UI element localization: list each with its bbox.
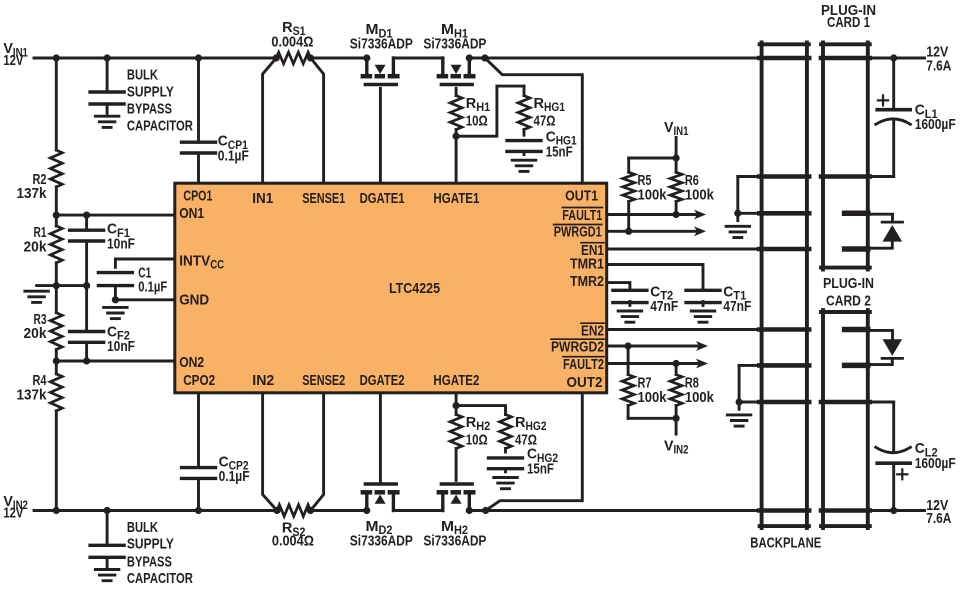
- pin label OUT2: [567, 374, 603, 391]
- svg-text:15nF: 15nF: [546, 143, 573, 160]
- label 12V 7.6A card2: [926, 497, 951, 527]
- svg-text:BYPASS: BYPASS: [127, 100, 172, 117]
- capacitor CHG2 15nF: [489, 446, 559, 478]
- svg-text:EN2: EN2: [581, 322, 604, 339]
- svg-text:CC: CC: [210, 260, 224, 272]
- ground below bulk capacitor 1: [95, 116, 119, 127]
- node junction dot OUT1 tap: [481, 54, 488, 61]
- op-amp U1 — LTC4225 hot swap controller IC body: [175, 183, 607, 393]
- node junction dot MD2 drain: [363, 507, 370, 514]
- node junction dot MD1 drain: [363, 54, 370, 61]
- svg-text:0.1µF: 0.1µF: [219, 468, 250, 485]
- svg-text:HGATE2: HGATE2: [433, 372, 479, 389]
- node junction dot MH1 source: [466, 54, 473, 61]
- wire 12V power pin crossing card 1: [821, 56, 870, 61]
- arrow FAULT2 off-page: [696, 359, 708, 369]
- ground below CHG1: [512, 152, 536, 172]
- label PLUG-IN CARD 1: [821, 2, 876, 31]
- pin label DGATE1: [360, 190, 405, 207]
- ground below bulk capacitor 2: [95, 570, 119, 581]
- svg-text:V: V: [664, 119, 674, 136]
- svg-text:Si7336ADP: Si7336ADP: [423, 533, 486, 550]
- node junction dot RS1 right: [307, 54, 314, 61]
- svg-text:CAPACITOR: CAPACITOR: [127, 570, 193, 587]
- wire 12V rail to CL1 and load: [868, 57, 925, 60]
- svg-text:CARD 1: CARD 1: [827, 14, 870, 31]
- svg-text:R: R: [534, 95, 545, 112]
- node junction dot FAULT1/R6: [673, 211, 680, 218]
- pin label DGATE2: [360, 372, 405, 389]
- svg-text:ON1: ON1: [179, 205, 204, 222]
- pin label CPO2 bottom row IN2: [252, 372, 274, 389]
- pin stub card1 EN1 short pin: [845, 246, 868, 252]
- svg-text:CARD 2: CARD 2: [826, 292, 871, 309]
- pin label PWRGD1 with overline: [554, 224, 602, 241]
- wire gnd sense pin crossing backplane card1: [759, 211, 809, 216]
- node junction dot RS2 right: [307, 507, 314, 514]
- svg-text:OUT1: OUT1: [565, 187, 598, 204]
- pin label EN1 with overline: [581, 242, 604, 259]
- pin label IN1: [252, 190, 273, 207]
- resistor RHG1 47ohm: [518, 86, 566, 135]
- wire HGATE1 pin to RH1: [455, 136, 458, 182]
- node junction dot OUT2 tap: [482, 507, 489, 514]
- node junction dot ground card1: [734, 210, 741, 217]
- wire DGATE1 pin to MD1 gate: [379, 88, 382, 182]
- svg-text:10nF: 10nF: [107, 235, 135, 252]
- svg-text:V: V: [664, 437, 674, 454]
- svg-text:SENSE2: SENSE2: [302, 372, 345, 389]
- label BACKPLANE: [750, 534, 821, 551]
- svg-text:100k: 100k: [685, 187, 715, 204]
- label BULK SUPPLY BYPASS CAPACITOR 1: [127, 66, 193, 134]
- wire FAULT2 output: [609, 362, 698, 365]
- node junction dot GND/C1: [112, 296, 119, 303]
- node junction dot CL2 bottom: [890, 507, 897, 514]
- wire ON2 pin to divider: [56, 360, 173, 363]
- pin label HGATE2: [433, 372, 479, 389]
- svg-text:0.004Ω: 0.004Ω: [271, 34, 313, 51]
- arrow FAULT1 off-page: [694, 210, 706, 220]
- resistor R2 137k: [17, 58, 63, 215]
- svg-text:20k: 20k: [24, 238, 48, 255]
- wire ON1 pin to divider: [56, 214, 173, 217]
- svg-text:PLUG-IN: PLUG-IN: [823, 275, 874, 292]
- node junction dot PWRGD2/R7: [625, 342, 632, 349]
- node junction dot CCP1 tap: [195, 54, 202, 61]
- ground GND pin: [104, 307, 128, 318]
- svg-text:20k: 20k: [24, 325, 48, 342]
- svg-text:137k: 137k: [17, 185, 48, 202]
- svg-text:TMR2: TMR2: [570, 273, 604, 290]
- node VIN2 pulldown supply label: [664, 437, 689, 456]
- svg-text:FAULT1: FAULT1: [562, 207, 602, 224]
- svg-text:Si7336ADP: Si7336ADP: [350, 533, 413, 550]
- pin label OUT1: [565, 187, 598, 204]
- wire 12V rail card2 to load: [868, 509, 925, 512]
- svg-text:CAPACITOR: CAPACITOR: [127, 118, 193, 135]
- svg-text:PWRGD1: PWRGD1: [554, 224, 602, 241]
- svg-text:LTC4225: LTC4225: [389, 280, 440, 297]
- svg-text:10nF: 10nF: [107, 338, 135, 355]
- svg-text:TMR1: TMR1: [570, 255, 604, 272]
- wire ground node to backplane card1: [738, 212, 760, 215]
- wire OUT1 pin connection: [485, 58, 582, 182]
- svg-text:0.004Ω: 0.004Ω: [272, 533, 314, 550]
- pin label CPO2: [183, 372, 215, 389]
- svg-text:Si7336ADP: Si7336ADP: [423, 36, 486, 53]
- transistor MH2 Si7336ADP: [423, 484, 486, 550]
- node junction dot PWRGD1/R5: [625, 228, 632, 235]
- svg-text:47nF: 47nF: [723, 298, 751, 315]
- resistor RHG2 47ohm: [500, 414, 547, 452]
- wire DGATE2 pin to MD2 gate: [379, 394, 382, 484]
- resistor R3 20k: [24, 286, 63, 361]
- resistor RH1 10ohm: [450, 88, 491, 136]
- wire PWRGD1 output: [609, 230, 698, 233]
- wire VIN1 rail to RS1: [34, 57, 276, 60]
- ground below CHG2: [494, 469, 518, 489]
- svg-text:R: R: [466, 95, 477, 112]
- diode card2 EN2 to GND: [868, 330, 903, 364]
- capacitor CF1 10nF: [70, 215, 135, 286]
- wire FAULT1 output: [609, 213, 698, 216]
- node junction dot ground card2: [736, 398, 743, 405]
- pin label FAULT1 with overline: [562, 207, 602, 224]
- svg-text:R: R: [515, 414, 526, 431]
- pin stub card2 EN2 short pin: [845, 327, 868, 333]
- wire return pin crossing card 1: [821, 174, 870, 179]
- arrow PWRGD1 off-page: [694, 226, 706, 236]
- wire return to CL2: [868, 401, 894, 404]
- pin label INTVCC: [179, 252, 224, 271]
- ground below CT1: [691, 302, 715, 323]
- wire R1/R3 midpoint to ground: [37, 284, 87, 287]
- pin label TMR1: [570, 255, 604, 272]
- svg-text:OUT2: OUT2: [567, 374, 603, 391]
- node junction dot R8 bottom: [673, 415, 680, 422]
- svg-text:CPO2: CPO2: [183, 372, 215, 389]
- svg-text:CPO1: CPO1: [183, 187, 212, 204]
- capacitor CL1 1600uF electrolytic: [868, 58, 956, 177]
- wire R7/R8 common to VIN2: [628, 418, 676, 434]
- ground card2 return: [727, 402, 751, 426]
- node junction dot CF1/CF2 junction: [83, 282, 90, 289]
- wire return pin crossing card 2: [821, 400, 870, 405]
- node junction dot bulk capacitor tap: [104, 54, 111, 61]
- label PLUG-IN CARD 2: [823, 275, 874, 309]
- wire rail RS2 to MD2: [311, 509, 367, 512]
- node junction dot CL1 top: [890, 54, 897, 61]
- svg-text:100k: 100k: [638, 389, 668, 406]
- wire SENSE2 pin connection: [311, 394, 324, 510]
- node junction dot R6 top: [673, 154, 680, 161]
- connector plug-in card 1: [821, 43, 870, 270]
- wire rail MH1 to backplane: [469, 57, 759, 60]
- svg-text:INTV: INTV: [179, 252, 210, 269]
- resistor R7 100k: [622, 346, 667, 418]
- wire return pin crossing backplane card1: [759, 174, 809, 179]
- svg-text:R: R: [466, 414, 477, 431]
- svg-text:HGATE1: HGATE1: [433, 190, 479, 207]
- node junction dot RS2 left: [273, 507, 280, 514]
- wire TMR1 to CT1: [609, 265, 704, 289]
- svg-text:SUPPLY: SUPPLY: [127, 83, 174, 100]
- pin label ON2: [179, 354, 204, 371]
- wire 12V power pin crossing card 2: [821, 508, 870, 513]
- svg-text:1600µF: 1600µF: [915, 116, 956, 133]
- resistor R1 20k: [24, 215, 63, 286]
- capacitor CL2 1600uF electrolytic: [876, 402, 956, 511]
- node junction dot R3/R4/ON2: [53, 357, 60, 364]
- pin stub card1 gnd short pin: [845, 211, 868, 217]
- label BULK SUPPLY BYPASS CAPACITOR 2: [127, 519, 193, 587]
- wire RH2 node to RHG2: [456, 406, 505, 415]
- diode card1 EN1 to GND: [868, 214, 903, 248]
- connector plug-in card 2: [821, 310, 870, 528]
- wire return to ground node card1: [738, 177, 760, 214]
- wire rail MH2 to backplane: [469, 509, 759, 512]
- svg-text:SUPPLY: SUPPLY: [127, 536, 174, 553]
- svg-text:0.1µF: 0.1µF: [138, 279, 167, 296]
- transistor MD1 Si7336ADP: [350, 21, 413, 84]
- wire EN1 pin crossing backplane: [759, 247, 809, 252]
- svg-text:7.6A: 7.6A: [926, 510, 951, 527]
- wire return pin crossing backplane card2: [759, 400, 809, 405]
- resistor RS2 0.004ohm sense resistor: [272, 505, 314, 550]
- svg-text:IN2: IN2: [674, 445, 689, 457]
- wire EN2 pin crossing backplane: [759, 327, 809, 332]
- resistor R8 100k: [670, 364, 714, 419]
- wire RH1 node to RHG1: [456, 86, 524, 136]
- pin label HGATE1: [433, 190, 479, 207]
- wire PWRGD2 output: [609, 345, 698, 348]
- pin label CPO1: [183, 187, 212, 204]
- svg-text:BACKPLANE: BACKPLANE: [750, 534, 821, 551]
- svg-text:10Ω: 10Ω: [466, 432, 488, 449]
- resistor R4 137k: [17, 361, 63, 511]
- wire return to ground node card2: [739, 401, 760, 404]
- node junction dot CF2 bottom: [83, 357, 90, 364]
- resistor R5 100k: [623, 158, 667, 231]
- node junction dot bulk capacitor 2 tap: [104, 507, 111, 514]
- svg-text:1600µF: 1600µF: [915, 455, 956, 472]
- arrow PWRGD2 off-page: [696, 341, 708, 351]
- pin label EN2 with overline: [581, 322, 604, 339]
- pin label SENSE2: [302, 372, 345, 389]
- node VIN2 label: [3, 493, 28, 522]
- capacitor CHG1 15nF: [507, 128, 577, 160]
- node junction dot MH2 source: [466, 507, 473, 514]
- svg-text:0.1µF: 0.1µF: [218, 147, 249, 164]
- svg-text:47Ω: 47Ω: [534, 113, 556, 130]
- pin label FAULT2 with overline: [563, 356, 604, 373]
- resistor RH2 10ohm: [450, 406, 490, 481]
- pin label ON1: [179, 205, 204, 222]
- transistor MD2 Si7336ADP: [350, 484, 413, 550]
- pin label TMR2: [570, 273, 604, 290]
- label 12V 7.6A card1: [926, 43, 951, 74]
- node VIN1 label: [3, 40, 28, 69]
- wire TMR2 to CT2: [609, 283, 630, 289]
- svg-text:47nF: 47nF: [650, 298, 678, 315]
- svg-text:15nF: 15nF: [527, 461, 554, 478]
- svg-text:100k: 100k: [638, 187, 668, 204]
- wire OUT2 pin connection: [486, 394, 583, 510]
- svg-text:Si7336ADP: Si7336ADP: [350, 36, 413, 53]
- wire rail RS1 to MD1: [311, 57, 367, 60]
- wire ground node to backplane card2: [739, 364, 760, 367]
- svg-text:DGATE1: DGATE1: [360, 190, 405, 207]
- wire IN1 pin connection: [263, 58, 277, 182]
- wire IN2 pin connection: [263, 394, 277, 510]
- node junction dot R2 tap: [53, 54, 60, 61]
- svg-text:137k: 137k: [17, 386, 48, 403]
- pin label PWRGD2 with overline: [551, 338, 604, 355]
- pin stub card2 gnd short pin: [845, 363, 868, 369]
- transistor MH1 Si7336ADP: [423, 21, 486, 84]
- node VIN1 pullup supply label: [664, 119, 689, 138]
- node junction dot HGATE1/RH1: [453, 133, 460, 140]
- svg-text:DGATE2: DGATE2: [360, 372, 405, 389]
- capacitor C1 0.1uF on INTVCC: [98, 259, 173, 300]
- pin label GND: [179, 291, 209, 308]
- capacitor bulk supply bypass capacitor 1: [90, 58, 124, 113]
- svg-text:FAULT2: FAULT2: [563, 356, 604, 373]
- wire SENSE1 pin connection: [311, 58, 324, 182]
- connector backplane: [760, 43, 809, 529]
- svg-text:100k: 100k: [685, 389, 715, 406]
- wire ground node vertical card2: [738, 365, 741, 402]
- ground below CT2: [618, 302, 642, 323]
- node junction dot R1 bottom: [53, 282, 60, 289]
- resistor R6 100k: [670, 158, 714, 215]
- wire VIN1 stub to R5/R6: [629, 138, 676, 159]
- capacitor bulk supply bypass capacitor 2: [90, 511, 124, 567]
- node junction dot RS1 left: [273, 54, 280, 61]
- svg-text:BULK: BULK: [127, 519, 158, 536]
- node junction dot HGATE2/RH2: [453, 402, 460, 409]
- wire EN2 to backplane: [609, 328, 760, 331]
- svg-text:GND: GND: [179, 291, 209, 308]
- pin label SENSE1: [302, 190, 345, 207]
- wire bridge MD2 source to MH2 drain: [393, 509, 442, 512]
- svg-text:7.6A: 7.6A: [926, 58, 951, 75]
- svg-text:10Ω: 10Ω: [466, 113, 488, 130]
- ground card1 return: [726, 213, 750, 237]
- wire EN1 to backplane: [609, 248, 760, 251]
- node junction dot CCP2 tap: [195, 507, 202, 514]
- wire gnd sense pin crossing backplane card2: [759, 363, 809, 368]
- wire 12V power pin crossing backplane card1: [759, 56, 809, 61]
- resistor RS1 0.004ohm sense resistor: [271, 19, 313, 64]
- node junction dot FAULT2/R8: [673, 360, 680, 367]
- svg-text:IN1: IN1: [252, 190, 273, 207]
- wire 12V power pin crossing backplane card2: [759, 508, 809, 513]
- svg-text:12V: 12V: [3, 505, 23, 522]
- wire bridge MD1 source to MH1 drain: [393, 57, 442, 60]
- node junction dot R4 tap: [53, 507, 60, 514]
- capacitor CCP1 0.1uF: [182, 58, 249, 182]
- ground divider midpoint: [25, 291, 48, 302]
- capacitor CCP2 0.1uF: [182, 394, 250, 510]
- node junction dot R1/R2/ON1: [53, 212, 60, 219]
- wire VIN2 rail to RS2: [34, 509, 277, 512]
- svg-text:SENSE1: SENSE1: [302, 190, 345, 207]
- svg-text:BULK: BULK: [127, 66, 158, 83]
- capacitor CT1 47nF: [686, 283, 751, 315]
- wire HGATE2 pin to RH2: [455, 394, 458, 405]
- node junction dot CF1 top: [83, 212, 90, 219]
- capacitor CF2 10nF: [70, 286, 135, 361]
- svg-text:PWRGD2: PWRGD2: [551, 338, 604, 355]
- svg-text:IN2: IN2: [252, 372, 274, 389]
- wire GND pin: [115, 298, 173, 301]
- svg-text:12V: 12V: [3, 52, 23, 69]
- svg-text:BYPASS: BYPASS: [127, 554, 172, 571]
- capacitor CT2 47nF: [613, 283, 678, 315]
- svg-text:ON2: ON2: [179, 354, 204, 371]
